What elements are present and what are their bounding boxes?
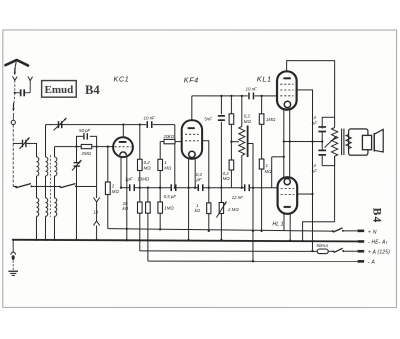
svg-text:MΩ: MΩ [223, 176, 231, 181]
svg-text:MΩ: MΩ [244, 119, 252, 124]
svg-text:kΩ: kΩ [122, 206, 128, 211]
svg-text:B4: B4 [370, 208, 382, 224]
svg-text:MΩ: MΩ [264, 169, 272, 174]
svg-text:KF4: KF4 [184, 75, 199, 84]
svg-text:μF: μF [195, 177, 201, 182]
svg-text:B4: B4 [85, 83, 100, 97]
svg-text:2MΩ: 2MΩ [81, 151, 92, 156]
svg-text:+ N: + N [368, 229, 377, 235]
svg-text:10 nF: 10 nF [246, 87, 258, 92]
svg-text:kΩ: kΩ [195, 208, 201, 213]
svg-text:KL1: KL1 [257, 75, 272, 84]
svg-text:nF: nF [312, 120, 317, 125]
svg-text:Emud: Emud [45, 84, 74, 96]
svg-text:50mA: 50mA [316, 243, 328, 248]
svg-text:nF: nF [312, 169, 317, 174]
svg-text:1MΩ: 1MΩ [164, 205, 174, 210]
svg-text:- A: - A [368, 260, 375, 266]
svg-text:MΩ: MΩ [164, 165, 172, 170]
svg-text:MΩ: MΩ [144, 165, 152, 170]
svg-text:0,2: 0,2 [144, 160, 151, 165]
svg-text:2 MΩ: 2 MΩ [227, 207, 239, 212]
svg-text:10 nF: 10 nF [144, 116, 156, 121]
svg-text:1MΩ: 1MΩ [266, 117, 276, 122]
svg-text:50 pF: 50 pF [79, 128, 91, 133]
svg-text:KC1: KC1 [114, 74, 130, 83]
svg-text:10MΩ: 10MΩ [137, 177, 150, 182]
svg-text:HL 1: HL 1 [272, 222, 283, 228]
svg-text:20kΩ: 20kΩ [163, 134, 175, 139]
svg-text:2: 2 [111, 183, 115, 188]
svg-text:12 nF: 12 nF [232, 195, 244, 200]
svg-text:5nF: 5nF [204, 117, 212, 122]
svg-text:1μF: 1μF [125, 177, 133, 182]
svg-text:0,5 μF: 0,5 μF [164, 194, 177, 199]
svg-text:+ A (125): + A (125) [368, 250, 390, 256]
svg-text:- HE- A1: - HE- A1 [368, 240, 388, 246]
svg-text:MΩ: MΩ [112, 189, 120, 194]
svg-text:1A: 1A [93, 209, 98, 214]
